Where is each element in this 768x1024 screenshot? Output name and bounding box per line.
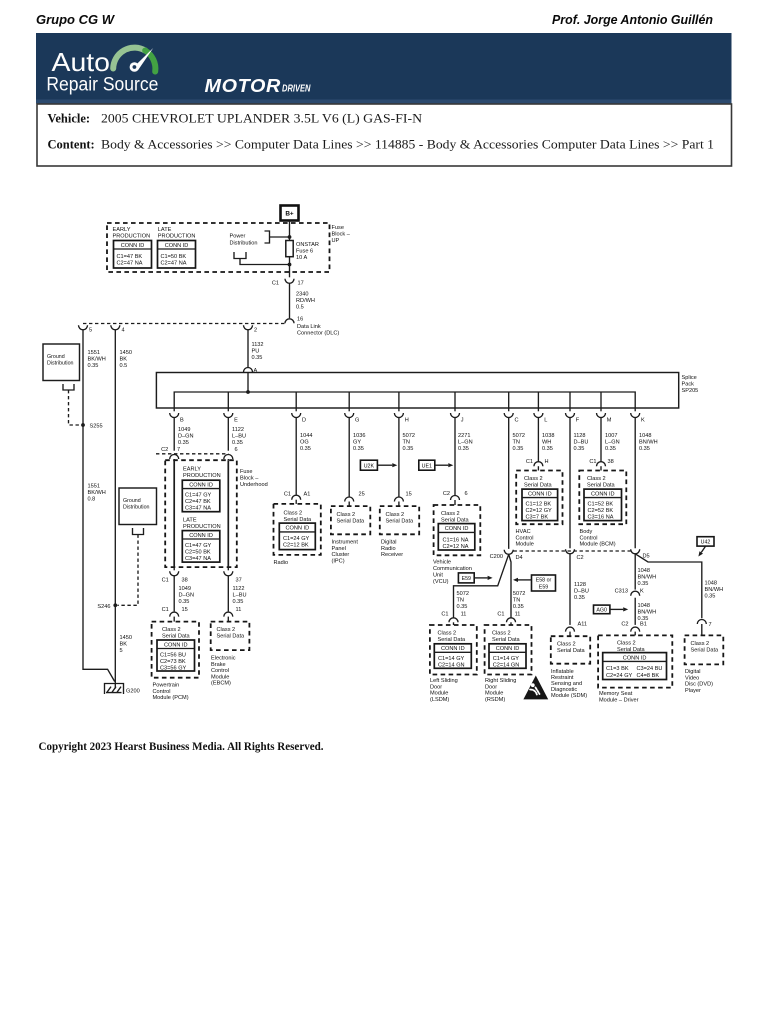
svg-text:Vehicle: Vehicle <box>433 560 451 566</box>
svg-text:Ground: Ground <box>123 498 141 504</box>
svg-text:UE1: UE1 <box>422 463 432 469</box>
module memory seat dashed outline <box>598 635 672 687</box>
wire H to digital radio receiver <box>398 418 400 498</box>
svg-text:0.35: 0.35 <box>705 594 716 600</box>
label Fuse Block - UP <box>332 225 351 244</box>
svg-text:Class 2: Class 2 <box>691 641 710 647</box>
svg-text:UP: UP <box>332 238 340 244</box>
wire label 2340 RD/WH 0.5 <box>296 292 315 311</box>
svg-text:C3=56 GY: C3=56 GY <box>160 665 187 671</box>
svg-text:C313: C313 <box>615 589 628 595</box>
svg-text:Module: Module <box>485 691 503 697</box>
svg-text:Digital: Digital <box>685 669 701 675</box>
label Digital Radio Receiver <box>381 540 403 559</box>
svg-text:1048: 1048 <box>639 433 651 439</box>
svg-text:Copyright 2023 Hearst Business: Copyright 2023 Hearst Business Media. Al… <box>39 741 324 753</box>
CONN ID table memory seat module <box>603 653 667 680</box>
svg-text:BN/WH: BN/WH <box>638 610 657 616</box>
svg-text:37: 37 <box>236 578 242 584</box>
svg-text:C1=14 GY: C1=14 GY <box>438 656 465 662</box>
module IPC dashed outline <box>331 506 370 534</box>
svg-text:HVAC: HVAC <box>516 529 531 535</box>
module EBCM dashed outline <box>211 622 250 651</box>
label Body Control Module (BCM) <box>580 529 616 548</box>
svg-text:TN: TN <box>513 440 520 446</box>
svg-text:C1: C1 <box>441 612 448 618</box>
svg-text:SP205: SP205 <box>682 388 699 394</box>
CONN ID table underhood late <box>182 531 220 563</box>
svg-text:K: K <box>640 589 644 595</box>
wire M to BCM <box>600 418 602 462</box>
svg-text:CONN ID: CONN ID <box>623 655 647 661</box>
svg-text:10 A: 10 A <box>296 255 307 261</box>
wire K to junction D5 <box>634 418 636 549</box>
svg-text:Left Sliding: Left Sliding <box>430 678 458 684</box>
svg-text:Data Link: Data Link <box>297 324 321 330</box>
svg-text:C1=47 GY: C1=47 GY <box>185 543 212 549</box>
svg-text:Serial Data: Serial Data <box>587 483 616 489</box>
svg-text:0.8: 0.8 <box>88 497 96 503</box>
option tag AG0 <box>594 605 610 614</box>
svg-text:E: E <box>234 418 238 424</box>
connector A at splice pack <box>244 368 253 373</box>
svg-text:Door: Door <box>430 684 442 690</box>
splice S246 <box>113 603 117 607</box>
data link connector dashed line <box>83 323 285 325</box>
option tag U42 <box>697 537 714 546</box>
splice pack terminal H <box>394 408 408 424</box>
svg-text:C1=52 BK: C1=52 BK <box>588 502 614 508</box>
svg-text:Control: Control <box>211 668 229 674</box>
wire 1122 L-BU to EBCM <box>227 576 229 612</box>
svg-text:1551: 1551 <box>88 484 100 490</box>
svg-text:38: 38 <box>608 459 614 465</box>
splice pack SP205 box <box>156 373 678 409</box>
label HVAC Control Module <box>516 529 534 548</box>
svg-text:C1: C1 <box>497 612 504 618</box>
wire through fuse block underhood right <box>227 460 229 567</box>
option tag E59 <box>458 573 474 583</box>
svg-text:Class 2: Class 2 <box>492 631 511 637</box>
splice pack terminal J <box>451 408 464 424</box>
svg-text:E59: E59 <box>462 576 471 582</box>
svg-text:C1: C1 <box>272 281 279 287</box>
svg-text:CONN ID: CONN ID <box>189 533 213 539</box>
svg-text:2340: 2340 <box>296 292 308 298</box>
splice pack bus bar <box>174 392 635 408</box>
svg-text:Control: Control <box>516 535 534 541</box>
svg-text:C2=50 BK: C2=50 BK <box>185 549 211 555</box>
dashed wire to splice S255 <box>69 390 81 425</box>
svg-text:C1=3 BK: C1=3 BK <box>606 666 629 672</box>
connector C2 pin 6 <box>224 455 233 460</box>
svg-text:Serial Data: Serial Data <box>284 517 313 523</box>
svg-text:Serial Data: Serial Data <box>492 637 521 643</box>
svg-text:Module (BCM): Module (BCM) <box>580 542 616 548</box>
label Class 2 Serial Data PCM <box>162 627 191 640</box>
junction bus input <box>246 390 250 394</box>
bracket under ground distribution lower <box>133 528 144 535</box>
wire label circuit 5072 C <box>513 433 525 452</box>
label Class 2 Serial Data radio <box>284 511 313 524</box>
svg-text:1122: 1122 <box>232 427 244 433</box>
svg-text:Right Sliding: Right Sliding <box>485 678 516 684</box>
svg-text:D–BU: D–BU <box>574 440 589 446</box>
fuse block UP dashed outline <box>107 223 330 272</box>
svg-text:Class 2: Class 2 <box>524 476 543 482</box>
label EARLY PRODUCTION underhood <box>183 467 221 480</box>
arrow AG0 to wire K <box>610 607 628 611</box>
svg-text:4: 4 <box>122 328 125 334</box>
connector C1 pin 38 at BCM <box>597 462 606 467</box>
svg-text:K: K <box>641 418 645 424</box>
wire label 1132 PU 0.35 <box>252 342 264 361</box>
wire label 1551 BK/WH 0.8 <box>88 484 106 503</box>
svg-text:C3=7 BK: C3=7 BK <box>526 515 549 521</box>
svg-text:Receiver: Receiver <box>381 552 403 558</box>
svg-text:Serial Data: Serial Data <box>337 519 366 525</box>
svg-text:Distribution: Distribution <box>47 361 74 367</box>
connector C1 pin 37 exit <box>224 567 233 576</box>
svg-text:C1=24 GY: C1=24 GY <box>283 536 310 542</box>
svg-text:0.35: 0.35 <box>300 446 311 452</box>
svg-text:1048: 1048 <box>638 603 650 609</box>
svg-text:Power: Power <box>230 234 246 240</box>
splice pack terminal L <box>534 408 547 424</box>
ground G200 <box>105 684 124 695</box>
svg-text:H: H <box>545 459 549 465</box>
wire 2340 RD/WH 0.5 <box>289 283 291 318</box>
svg-text:(EBCM): (EBCM) <box>211 681 231 687</box>
svg-text:CONN ID: CONN ID <box>189 482 213 488</box>
svg-text:Powertrain: Powertrain <box>153 683 180 689</box>
svg-text:D4: D4 <box>516 555 523 561</box>
logo gauge arc dark green <box>145 51 155 72</box>
connector C2 pin B1 into memory seat module <box>631 627 640 632</box>
svg-text:PRODUCTION: PRODUCTION <box>183 473 221 479</box>
svg-text:PRODUCTION: PRODUCTION <box>183 524 221 530</box>
svg-text:M: M <box>607 418 612 424</box>
wire 1048 BN/WH lower <box>634 598 636 625</box>
wire D to radio <box>295 418 297 495</box>
svg-text:Serial Data: Serial Data <box>524 483 553 489</box>
svg-text:Unit: Unit <box>433 573 443 579</box>
svg-text:0.35: 0.35 <box>458 446 469 452</box>
svg-text:C2=12 NA: C2=12 NA <box>443 544 469 550</box>
module BCM dashed outline <box>579 471 626 525</box>
svg-text:Repair Source: Repair Source <box>46 73 158 95</box>
module PCM dashed outline <box>152 622 199 678</box>
svg-text:16: 16 <box>297 317 303 323</box>
wire label circuit 1036 G <box>353 433 365 452</box>
svg-text:C1=47 BK: C1=47 BK <box>117 254 143 260</box>
svg-text:Body & Accessories >> Computer: Body & Accessories >> Computer Data Line… <box>101 138 714 152</box>
option tag U2K <box>360 460 377 470</box>
svg-text:C1=47 GY: C1=47 GY <box>185 493 212 499</box>
label EARLY PRODUCTION <box>113 227 151 240</box>
svg-text:Radio: Radio <box>381 546 396 552</box>
svg-text:0.35: 0.35 <box>179 599 190 605</box>
svg-text:Serial Data: Serial Data <box>217 634 246 640</box>
splice pack terminal B <box>170 408 184 424</box>
svg-text:Disc (DVD): Disc (DVD) <box>685 682 713 688</box>
label Digital Video Disc (DVD) Player <box>685 669 713 694</box>
module DVD player dashed outline <box>685 635 724 664</box>
module SDM dashed outline <box>551 636 590 664</box>
junction at fuse bottom <box>288 263 292 267</box>
svg-text:0.35: 0.35 <box>403 446 414 452</box>
module RSDM dashed outline <box>485 625 532 675</box>
wire E to fuse block underhood <box>227 418 229 451</box>
wire label circuit 1128 F <box>574 433 589 452</box>
ground distribution cell lower <box>119 488 157 525</box>
dashed wire to splice S246 <box>118 535 139 606</box>
ground distribution cell upper <box>43 344 80 381</box>
svg-text:Brake: Brake <box>211 662 226 668</box>
svg-text:Panel: Panel <box>332 546 346 552</box>
svg-text:BN/WH: BN/WH <box>705 587 724 593</box>
svg-text:Class 2: Class 2 <box>617 641 636 647</box>
wire label circuit 1007 M <box>605 433 620 452</box>
svg-text:C2=14 GN: C2=14 GN <box>493 663 520 669</box>
svg-text:L–GN: L–GN <box>605 440 620 446</box>
label Class 2 Serial Data EBCM <box>217 627 246 640</box>
svg-text:0.35: 0.35 <box>605 446 616 452</box>
module digital radio receiver dashed outline <box>380 506 419 534</box>
svg-text:BK/WH: BK/WH <box>88 357 106 363</box>
label Ground Distribution lower <box>123 498 150 511</box>
label ONSTAR Fuse 6 10 A <box>296 242 319 261</box>
svg-text:Module: Module <box>516 542 534 548</box>
svg-text:C2=73 BK: C2=73 BK <box>160 659 186 665</box>
wire label 1048 BN/WH 0.35 upper <box>638 568 657 587</box>
splice S255 <box>81 423 85 427</box>
wire label 5072 TN 0.35 LSDM <box>457 591 469 610</box>
svg-text:C1=16 NA: C1=16 NA <box>443 538 469 544</box>
svg-text:Class 2: Class 2 <box>337 512 356 518</box>
svg-text:Class 2: Class 2 <box>438 631 457 637</box>
svg-text:Module – Driver: Module – Driver <box>599 698 639 704</box>
connector pin A11 into SDM <box>566 627 575 632</box>
CONN ID table PCM <box>157 640 195 671</box>
svg-text:C2: C2 <box>161 447 168 453</box>
bracket power distribution feed <box>265 231 270 243</box>
connector pin 25 at IPC <box>345 497 354 502</box>
connector pin 4 <box>111 325 120 330</box>
wire through fuse block underhood left <box>173 460 175 567</box>
label LATE PRODUCTION underhood <box>183 518 221 531</box>
connector C1 pin H at HVAC <box>534 462 543 467</box>
svg-text:Distribution: Distribution <box>123 505 150 511</box>
svg-text:5072: 5072 <box>403 433 415 439</box>
splice pack terminal E <box>224 408 238 424</box>
label Class 2 Serial Data LSDM <box>438 631 467 644</box>
svg-text:BK: BK <box>120 357 128 363</box>
svg-text:C3=16 NA: C3=16 NA <box>588 515 614 521</box>
svg-text:EARLY: EARLY <box>113 227 131 233</box>
wire J to VCU <box>454 418 456 496</box>
label Splice Pack SP205 <box>682 375 699 394</box>
svg-text:CONN ID: CONN ID <box>445 526 469 532</box>
wire label 1048 BN/WH 0.35 lower <box>638 603 657 622</box>
svg-text:BK/WH: BK/WH <box>88 490 106 496</box>
svg-text:ONSTAR: ONSTAR <box>296 242 319 248</box>
wire 1048 BN/WH to DVD player <box>635 554 702 619</box>
connector D5 junction on wire K <box>631 549 640 554</box>
svg-text:Content:: Content: <box>48 138 95 152</box>
splice pack terminal K <box>631 408 645 424</box>
svg-text:C2=14 GN: C2=14 GN <box>438 663 465 669</box>
option tag E58 or E59 <box>532 575 556 591</box>
label LATE PRODUCTION <box>158 227 196 240</box>
CONN ID table late production <box>158 241 196 269</box>
svg-text:0.35: 0.35 <box>639 446 650 452</box>
svg-text:L–BU: L–BU <box>232 434 246 440</box>
svg-text:C2: C2 <box>577 555 584 561</box>
wire label circuit 5072 H <box>403 433 415 452</box>
splice pack terminal M <box>597 408 612 424</box>
label Class 2 Serial Data IPC <box>337 512 366 525</box>
svg-text:0.35: 0.35 <box>178 440 189 446</box>
svg-text:J: J <box>461 418 464 424</box>
svg-text:Electronic: Electronic <box>211 656 236 662</box>
svg-text:Class 2: Class 2 <box>386 512 405 518</box>
label Class 2 Serial Data VCU <box>441 511 470 524</box>
CONN ID table HVAC <box>522 489 558 520</box>
svg-text:Serial Data: Serial Data <box>441 518 470 524</box>
wire 1048 BN/WH upper <box>634 554 636 590</box>
svg-text:Player: Player <box>685 688 701 694</box>
svg-text:Class 2: Class 2 <box>284 511 303 517</box>
svg-text:Underhood: Underhood <box>240 482 268 488</box>
svg-text:Serial Data: Serial Data <box>691 648 720 654</box>
wire label circuit 2271 J <box>458 433 473 452</box>
svg-text:C3=24 BU: C3=24 BU <box>637 666 663 672</box>
svg-text:Vehicle:: Vehicle: <box>48 112 91 126</box>
fuse block underhood dashed outline <box>165 460 237 567</box>
svg-text:RD/WH: RD/WH <box>296 298 315 304</box>
wire 1128 D-BU to SDM <box>569 554 571 625</box>
airbag warning triangle <box>523 676 548 700</box>
svg-text:L: L <box>544 418 547 424</box>
label Class 2 Serial Data BCM <box>587 476 616 489</box>
arrow E58 or E59 to RSDM wire <box>513 578 532 582</box>
svg-text:5072: 5072 <box>513 591 525 597</box>
splice pack terminal C <box>504 408 518 424</box>
label Data Link Connector (DLC) <box>297 324 339 336</box>
connector pin 7 into DVD player <box>697 620 706 625</box>
svg-text:S246: S246 <box>97 604 110 610</box>
svg-text:Splice: Splice <box>682 375 697 381</box>
label Fuse Block - Underhood <box>240 469 268 488</box>
svg-text:Communication: Communication <box>433 566 472 572</box>
svg-text:WH: WH <box>542 440 551 446</box>
CONN ID table BCM <box>584 489 622 520</box>
svg-text:1128: 1128 <box>574 582 586 588</box>
svg-text:C3=47 NA: C3=47 NA <box>185 506 211 512</box>
svg-text:0.35: 0.35 <box>457 604 468 610</box>
module VCU dashed outline <box>434 505 481 555</box>
wire label circuit 1049 B <box>178 427 194 446</box>
svg-text:PRODUCTION: PRODUCTION <box>113 234 151 240</box>
connector C1 pin 11 into RSDM <box>507 618 516 622</box>
wire power distribution to fuse <box>270 236 290 238</box>
svg-text:MOTOR: MOTOR <box>205 75 282 96</box>
svg-text:Grupo CG W: Grupo CG W <box>36 12 116 27</box>
svg-text:2271: 2271 <box>458 433 470 439</box>
label Vehicle Communication Unit (VCU) <box>433 560 472 586</box>
svg-text:Class 2: Class 2 <box>162 627 181 633</box>
wire 1450 BK to G200 <box>114 330 116 689</box>
svg-text:TN: TN <box>403 440 410 446</box>
wire label 1450 BK 0.5 <box>120 350 132 369</box>
svg-text:G200: G200 <box>126 689 140 695</box>
svg-text:C2: C2 <box>621 622 628 628</box>
svg-text:6: 6 <box>235 447 238 453</box>
wire label 5072 TN 0.35 RSDM <box>513 591 525 610</box>
wire B to fuse block underhood <box>173 418 175 451</box>
svg-text:1450: 1450 <box>120 635 132 641</box>
svg-text:Fuse 6: Fuse 6 <box>296 248 313 254</box>
svg-text:Block –: Block – <box>332 232 351 238</box>
svg-text:1036: 1036 <box>353 433 365 439</box>
svg-text:Class 2: Class 2 <box>587 476 606 482</box>
connector C1 pin A1 at radio <box>292 495 301 500</box>
svg-text:Cluster: Cluster <box>332 552 350 558</box>
svg-text:F: F <box>576 418 580 424</box>
svg-text:Pack: Pack <box>682 382 695 388</box>
wire label 1450 BK 5 <box>120 635 132 654</box>
connector pin 15 at digital radio receiver <box>394 497 403 502</box>
svg-text:PU: PU <box>252 349 260 355</box>
svg-text:0.5: 0.5 <box>120 363 128 369</box>
label Instrument Panel Cluster (IPC) <box>332 540 359 565</box>
svg-text:11: 11 <box>461 612 467 618</box>
svg-text:D–BU: D–BU <box>574 589 589 595</box>
svg-text:(RSDM): (RSDM) <box>485 697 505 703</box>
wire G to IPC <box>348 418 350 498</box>
arrow U42 to DVD wire <box>698 546 705 556</box>
label Class 2 Serial Data RSDM <box>492 631 521 644</box>
svg-text:B1: B1 <box>640 622 647 628</box>
svg-text:0.35: 0.35 <box>233 599 244 605</box>
svg-text:1044: 1044 <box>300 433 312 439</box>
svg-text:C1=12 BK: C1=12 BK <box>526 502 552 508</box>
svg-text:Control: Control <box>580 535 598 541</box>
battery feed B+ <box>281 206 299 221</box>
connector pin 11 into EBCM <box>224 612 233 617</box>
svg-text:6: 6 <box>465 491 468 497</box>
connector 16 at DLC <box>285 319 294 324</box>
svg-text:A1: A1 <box>304 492 311 498</box>
module HVAC dashed outline <box>516 471 562 525</box>
wire label 1048 BN/WH 0.35 DVD <box>705 581 724 600</box>
wire label circuit 1044 D <box>300 433 312 452</box>
module radio dashed outline <box>274 504 321 555</box>
svg-text:TN: TN <box>457 598 464 604</box>
svg-text:A11: A11 <box>578 622 588 628</box>
splice pack bus drops <box>228 392 601 408</box>
svg-text:C1: C1 <box>284 492 291 498</box>
svg-text:Door: Door <box>485 684 497 690</box>
logo gauge arc light green <box>113 48 145 69</box>
svg-text:1048: 1048 <box>705 581 717 587</box>
svg-text:5: 5 <box>120 648 123 654</box>
svg-text:C2=12 BK: C2=12 BK <box>283 543 309 549</box>
svg-text:C2=52 BK: C2=52 BK <box>588 508 614 514</box>
svg-text:G: G <box>355 418 359 424</box>
CONN ID table underhood early <box>182 480 220 512</box>
